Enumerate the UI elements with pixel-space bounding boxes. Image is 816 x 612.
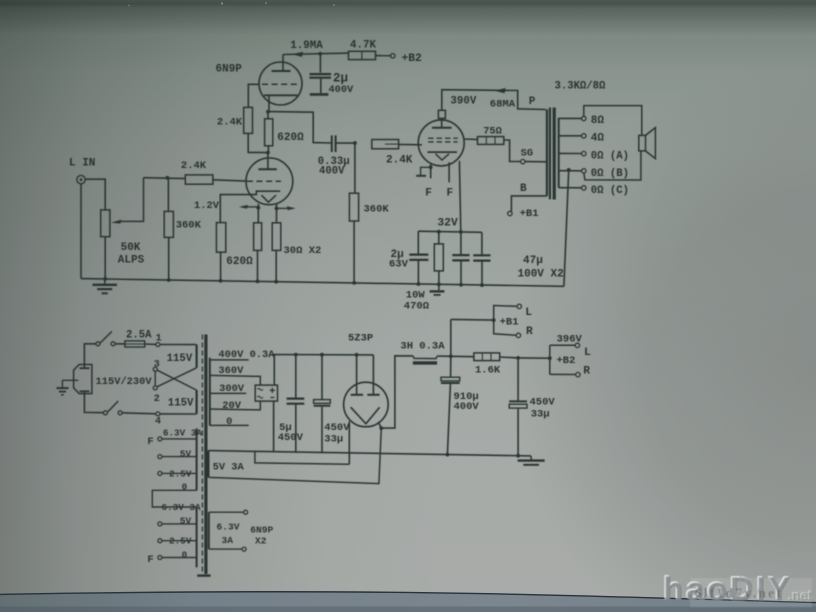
svg-text:115V: 115V (168, 397, 194, 409)
svg-text:400V: 400V (329, 84, 355, 96)
heater tap 5V a (158, 455, 197, 459)
resistor 620 ohm cathode (216, 223, 225, 281)
resistor 470 ohm 10W cathode (434, 232, 443, 285)
node bus dot 470 (437, 283, 441, 287)
svg-text:33μ: 33μ (324, 434, 343, 446)
svg-text:3: 3 (154, 360, 160, 371)
wire plate to B2 node (283, 52, 349, 57)
node junction 620-2.4K-plate (266, 151, 270, 155)
resistor 1.6K dropper (474, 353, 518, 361)
node cathode junction V1b (266, 110, 270, 114)
svg-text:L: L (584, 347, 591, 359)
node junction B2 (548, 356, 552, 360)
transformer 5V winding (208, 451, 210, 478)
wire plug bottom (84, 391, 103, 412)
node bus dot 30A (256, 280, 260, 284)
svg-text:75Ω: 75Ω (483, 126, 502, 138)
wire filament left to 5V winding (348, 421, 350, 464)
wire cross 3 to lower winding (157, 370, 196, 390)
tube V1a 6N9P lower triode (220, 153, 292, 223)
resistor 2.4K upper grid (244, 107, 268, 152)
transformer OPT primary winding (546, 110, 548, 196)
svg-text:360K: 360K (364, 204, 390, 216)
wire switch to terminal 4 (122, 413, 156, 414)
wire choke to 1.6K (437, 355, 474, 358)
svg-text:30Ω X2: 30Ω X2 (284, 245, 322, 257)
svg-text:390V: 390V (450, 95, 476, 107)
tube V1b 6N9P upper triode (259, 55, 302, 112)
HV tap 360V (210, 375, 260, 385)
svg-text:F: F (147, 554, 153, 566)
transformer PT core (197, 335, 210, 576)
svg-text:R: R (526, 326, 533, 338)
label 0 b (182, 549, 188, 560)
svg-text:0Ω (A): 0Ω (A) (591, 150, 629, 162)
label 5Z3P (348, 333, 373, 345)
capacitor 450V 33u output (509, 358, 527, 456)
wire plug top (84, 344, 95, 368)
svg-text:400V: 400V (319, 166, 345, 178)
wire 32V cathode node (418, 231, 482, 232)
node rail dot 33u (320, 353, 324, 357)
wire bridge minus to bus (273, 401, 275, 452)
switch SW1a (96, 331, 115, 345)
label 620 ohm upper (277, 132, 304, 144)
transformer OPT core (550, 108, 554, 200)
label 10W 470ohm (404, 290, 430, 313)
label 20V (222, 400, 241, 412)
svg-text:20V: 20V (222, 400, 241, 412)
label 2.4K input (181, 160, 207, 172)
svg-text:620Ω: 620Ω (277, 132, 304, 144)
svg-text:400V 0.3A: 400V 0.3A (218, 349, 275, 361)
resistor 360K grid leak (164, 178, 173, 279)
label 400V coupling (319, 166, 345, 178)
svg-text:F: F (446, 187, 453, 199)
transformer OPT secondary winding (558, 118, 560, 188)
potentiometer 50K ALPS (101, 178, 144, 279)
label 390V (450, 95, 476, 107)
ground symbol psu (518, 456, 545, 465)
svg-text:5V 3A: 5V 3A (213, 462, 245, 474)
label 115V/230V (96, 376, 153, 388)
node bus dot pot (103, 277, 107, 281)
svg-text:SG: SG (521, 148, 533, 160)
svg-text:0: 0 (182, 482, 188, 493)
resistor 30 ohm A (254, 223, 262, 282)
svg-text:4.7K: 4.7K (350, 40, 376, 52)
label 50K ALPS (118, 242, 145, 266)
node bus dot 360Kr (352, 281, 356, 285)
label 2.5A (126, 330, 152, 342)
svg-text:6.3V 3A: 6.3V 3A (163, 427, 202, 438)
resistor 4.7K plate load (349, 51, 391, 59)
capacitor 47u A (452, 232, 469, 285)
label 0 tap (226, 416, 232, 428)
label 5u 450V (278, 422, 304, 444)
terminal primary 2 (153, 386, 157, 390)
node junction wiper-360K (165, 176, 169, 180)
label 396V (557, 333, 583, 345)
svg-text:470Ω: 470Ω (404, 300, 430, 312)
svg-text:360K: 360K (176, 220, 202, 232)
svg-text:2.4K: 2.4K (181, 160, 207, 172)
svg-text:F: F (425, 187, 432, 199)
resistor 2.4K grid stopper (185, 175, 246, 184)
label 400V upper (329, 84, 355, 96)
capacitor 450V 33u psu (314, 355, 331, 454)
svg-text:6N9P: 6N9P (250, 524, 273, 535)
svg-text:3A: 3A (222, 535, 234, 546)
ground bar of 2u cap (310, 93, 329, 96)
svg-text:2.4K: 2.4K (386, 155, 413, 167)
label +B1 opt (520, 208, 539, 220)
wire grid V1b (248, 84, 259, 107)
node filament output junction (379, 426, 383, 430)
svg-text:3.3KΩ/8Ω: 3.3KΩ/8Ω (555, 81, 607, 93)
node filament junction right (275, 207, 279, 211)
label F bottom (147, 554, 153, 566)
secondary tap 4 ohm (559, 132, 605, 144)
label 6.3V 3A right (217, 521, 240, 546)
label terminal 1 (156, 334, 162, 345)
node bus dot 620 (219, 279, 223, 283)
label terminal 2 (154, 394, 160, 405)
label +B1 L R (500, 307, 533, 338)
node junction cap47 top (459, 230, 463, 234)
terminal block +B1 (451, 304, 522, 337)
wire screen grid to 75 ohm (464, 138, 478, 140)
svg-text:5Z3P: 5Z3P (348, 333, 373, 345)
svg-text:4Ω: 4Ω (591, 132, 605, 144)
heater tap 2.5V b (158, 539, 197, 543)
terminal primary 1 (156, 343, 160, 347)
wire speaker hot (584, 106, 642, 136)
svg-text:8Ω: 8Ω (591, 115, 605, 127)
label SG (521, 148, 533, 160)
label 4.7K (350, 40, 376, 52)
svg-text:300V: 300V (219, 383, 245, 395)
secondary tap 8 ohm (559, 115, 605, 127)
svg-text:115V/230V: 115V/230V (96, 376, 153, 388)
secondary tap 0 ohm B (559, 168, 629, 180)
wire filament output to choke (381, 356, 413, 428)
node junction 1.6K out (516, 356, 520, 360)
watermark haoDIY (662, 569, 813, 608)
svg-text:5V: 5V (180, 448, 192, 459)
heater tap 2.5V a (158, 471, 197, 475)
svg-text:3H 0.3A: 3H 0.3A (400, 341, 445, 353)
wire cathode V2 to 32V node (459, 161, 460, 232)
choke 3H 0.3A (413, 356, 437, 363)
wire wiper node to grid network (144, 177, 186, 180)
node bus dot 30B (274, 280, 278, 284)
svg-text:33μ: 33μ (531, 409, 550, 421)
svg-text:396V: 396V (557, 333, 583, 345)
label 2.5V a (169, 468, 192, 479)
svg-text:6.3V 3A: 6.3V 3A (162, 502, 201, 513)
HV tap 0 (210, 424, 249, 426)
wire ground bus lower (209, 451, 532, 456)
wire jack sleeve to ground bus (80, 184, 82, 279)
terminal primary 4 (156, 412, 160, 416)
label 6.3V 3A second (162, 502, 201, 513)
svg-text:L: L (525, 307, 532, 319)
label 2u 63V (389, 249, 409, 270)
label 910u 400V (454, 391, 480, 413)
label F F filaments (425, 187, 453, 199)
wire 5V winding top (255, 451, 349, 464)
label 1.9MA (290, 40, 323, 52)
wire ground bus upper (81, 279, 564, 287)
wire terminal4 to winding (160, 413, 196, 415)
node beam plate junction (429, 165, 433, 169)
transformer HV winding (209, 358, 211, 426)
svg-text:100V X2: 100V X2 (518, 268, 564, 280)
label +B2 upper (402, 53, 423, 65)
label 400V 0.3A (218, 349, 275, 361)
label 1.2V cathode voltage (194, 200, 220, 212)
label 47u 100V X2 (518, 255, 564, 280)
wire tap B to ground bus (564, 170, 569, 286)
wire OPT B to +B1 terminal (511, 196, 547, 211)
label 3H 0.3A (400, 341, 445, 353)
label 2.5V b (169, 536, 192, 547)
terminal block +B2 (550, 343, 580, 377)
terminal +B2 upper (391, 54, 395, 58)
label 68MA (490, 99, 516, 111)
node bus dot 910u (446, 453, 450, 457)
svg-text:P: P (529, 96, 536, 108)
wire filament lead right (276, 204, 278, 222)
svg-text:400V: 400V (454, 401, 480, 413)
label 6.3V 3A first (163, 427, 202, 438)
svg-text:F: F (147, 436, 153, 448)
node junction plate-cap (318, 52, 322, 56)
resistor 75 ohm screen (478, 137, 504, 145)
svg-text:L IN: L IN (69, 158, 95, 170)
node bus dot 360K (167, 278, 171, 282)
wire filament V2 right (448, 162, 450, 182)
terminal primary 3 (153, 367, 157, 371)
resistor 30 ohm B (272, 223, 281, 282)
svg-text:6N9P: 6N9P (216, 64, 243, 76)
label 450V 33u psu (324, 422, 350, 446)
resistor 620 ohm upper (265, 112, 273, 153)
secondary tap 0 ohm C (559, 185, 629, 197)
node bus dot 2u63 (417, 282, 421, 286)
label P terminal (529, 96, 536, 108)
svg-text:2.5V: 2.5V (169, 536, 192, 547)
wire SG to transformer tap (525, 161, 546, 163)
svg-text:+B1: +B1 (520, 208, 539, 220)
svg-text:68MA: 68MA (490, 99, 516, 111)
svg-text:5V: 5V (180, 516, 192, 527)
label terminal 4 (155, 417, 161, 428)
input jack J1 (77, 175, 85, 183)
svg-text:1.2V: 1.2V (194, 200, 220, 212)
svg-text:ALPS: ALPS (118, 254, 145, 266)
svg-text:450V: 450V (530, 397, 556, 409)
svg-text:50K: 50K (121, 242, 141, 254)
svg-text:47μ: 47μ (523, 255, 543, 267)
wire beam plate hook (416, 164, 431, 178)
label F top (147, 436, 153, 448)
capacitor 2u 63V cathode (409, 231, 428, 284)
transformer PT primary winding upper (196, 345, 198, 368)
label 115V lower (168, 397, 194, 409)
wire 5V winding bottom (209, 428, 382, 484)
wire cross 2 to upper winding (157, 368, 196, 387)
label 6N9P X2 (250, 524, 273, 546)
svg-text:1.9MA: 1.9MA (290, 40, 323, 52)
speaker LS1 (639, 128, 656, 159)
HV tap 400V (210, 359, 249, 361)
transformer 6.3V winding (208, 512, 210, 549)
node rail dot plate (355, 353, 359, 357)
svg-text:0: 0 (226, 416, 232, 428)
switch SW1b (103, 401, 122, 415)
svg-text:0Ω (B): 0Ω (B) (591, 168, 629, 180)
label 0 a (182, 482, 188, 493)
svg-text:0Ω (C): 0Ω (C) (591, 185, 629, 197)
svg-text:.net: .net (789, 589, 814, 604)
svg-text:4: 4 (155, 417, 161, 428)
svg-text:+B2: +B2 (402, 53, 423, 65)
svg-text:X2: X2 (255, 536, 267, 547)
label 2.4K upper (217, 117, 243, 129)
wire filament lead left (257, 204, 259, 223)
node bus dot 47uA (459, 283, 463, 287)
fuse 2.5A (115, 341, 156, 347)
wire filament right leg (378, 422, 381, 428)
svg-text:R: R (583, 366, 590, 378)
label 360V (218, 365, 244, 377)
svg-text:2.5A: 2.5A (126, 330, 152, 342)
heater out bottom (209, 547, 246, 551)
tube 5Z3P rectifier (344, 355, 389, 427)
node filament junction left (256, 206, 260, 210)
heater tap 0 b (158, 556, 197, 560)
ground symbol input (93, 279, 118, 293)
wire speaker return (584, 151, 641, 180)
label 5V b (180, 516, 192, 527)
svg-text:1: 1 (156, 334, 162, 345)
transformer heater winding 2 (196, 507, 198, 567)
node bus dot 47uB (480, 283, 484, 287)
svg-text:620Ω: 620Ω (226, 256, 253, 268)
wire 75 ohm to SG terminal (504, 140, 521, 162)
node L IN input label (69, 158, 95, 170)
resistor 2.4K grid stopper V2 (372, 140, 422, 149)
resistor 360K grid leak V2 (349, 143, 358, 283)
svg-text:B: B (520, 183, 527, 195)
svg-text:2: 2 (154, 394, 160, 405)
label 6N9P (216, 64, 243, 76)
label +B2 L R (557, 347, 592, 378)
node junction tap B ground (567, 168, 571, 172)
label 360K right (364, 204, 390, 216)
label terminal 3 (154, 360, 160, 371)
svg-text:+B1: +B1 (500, 317, 519, 329)
tube V2 output beam tetrode (418, 110, 464, 166)
label 450V 33u out (530, 397, 556, 421)
bridge rectifier D1 (255, 385, 277, 401)
arrow heater left (239, 205, 258, 209)
wire V2 plate to OPT primary (442, 88, 546, 110)
svg-text:2.4K: 2.4K (217, 117, 243, 129)
node junction 470 ohm top (437, 230, 441, 234)
label 360K (176, 220, 202, 232)
ground symbol AC (56, 380, 78, 395)
label 1.6K (475, 365, 501, 377)
svg-text:1.6K: 1.6K (475, 365, 501, 377)
label 620 ohm lower (226, 256, 253, 268)
schematic drawing (56, 40, 655, 576)
HV tap 20V (210, 401, 260, 410)
transformer PT primary winding lower (196, 390, 198, 414)
capacitor 2u 400V decoupling (310, 54, 332, 93)
label 2.4K mid (386, 155, 413, 167)
svg-text:63V: 63V (389, 258, 409, 270)
svg-text:+B2: +B2 (557, 355, 576, 367)
terminal +B1 opt (508, 211, 512, 215)
svg-text:0: 0 (182, 549, 188, 560)
label B terminal (520, 183, 527, 195)
wire jack to pot top (85, 179, 105, 210)
svg-text:6.3V: 6.3V (217, 521, 240, 532)
heater tap 0 a bracket (152, 490, 196, 507)
node junction cap-360K (353, 141, 357, 145)
label 3.3Kohm per 8ohm (555, 81, 607, 93)
label 5V 3A (213, 462, 245, 474)
svg-text:360V: 360V (218, 365, 244, 377)
label 75 ohm (483, 126, 502, 138)
secondary tap 0 ohm A (559, 150, 629, 162)
node rail dot 5u (294, 353, 298, 357)
heater tap 5V b (158, 522, 197, 526)
wire B1 riser (450, 319, 452, 356)
label 30 ohm X2 (284, 245, 322, 257)
node bus dot 33uout (516, 454, 520, 458)
label 5V a (180, 448, 192, 459)
terminal SG (521, 159, 525, 163)
wire to B2 block (518, 357, 550, 359)
node choke junction B1 (449, 354, 453, 358)
svg-text:2.5V: 2.5V (169, 468, 192, 479)
capacitor 0.33u 400V coupling (332, 135, 355, 152)
AC plug (74, 365, 92, 394)
heater out top (209, 510, 248, 514)
capacitor 47u B (473, 232, 490, 285)
arrow heater right (277, 206, 296, 210)
label 32V (437, 217, 458, 229)
capacitor 910u 400V (441, 356, 460, 455)
HV tap 300V (210, 392, 246, 394)
svg-text:115V: 115V (167, 353, 193, 365)
svg-text:450V: 450V (324, 422, 350, 434)
svg-text:32V: 32V (437, 217, 458, 229)
heater tap F1 (158, 437, 197, 441)
screen bottom edge region (0, 592, 816, 612)
wire bridge plus rail (274, 355, 373, 386)
svg-text:450V: 450V (278, 432, 304, 444)
label 115V upper (167, 353, 193, 365)
wire terminal1 to winding (160, 344, 196, 346)
wire 3-2 link (154, 371, 156, 386)
capacitor 5u 450V (287, 355, 305, 453)
dust specks on dark top bar (128, 2, 335, 6)
